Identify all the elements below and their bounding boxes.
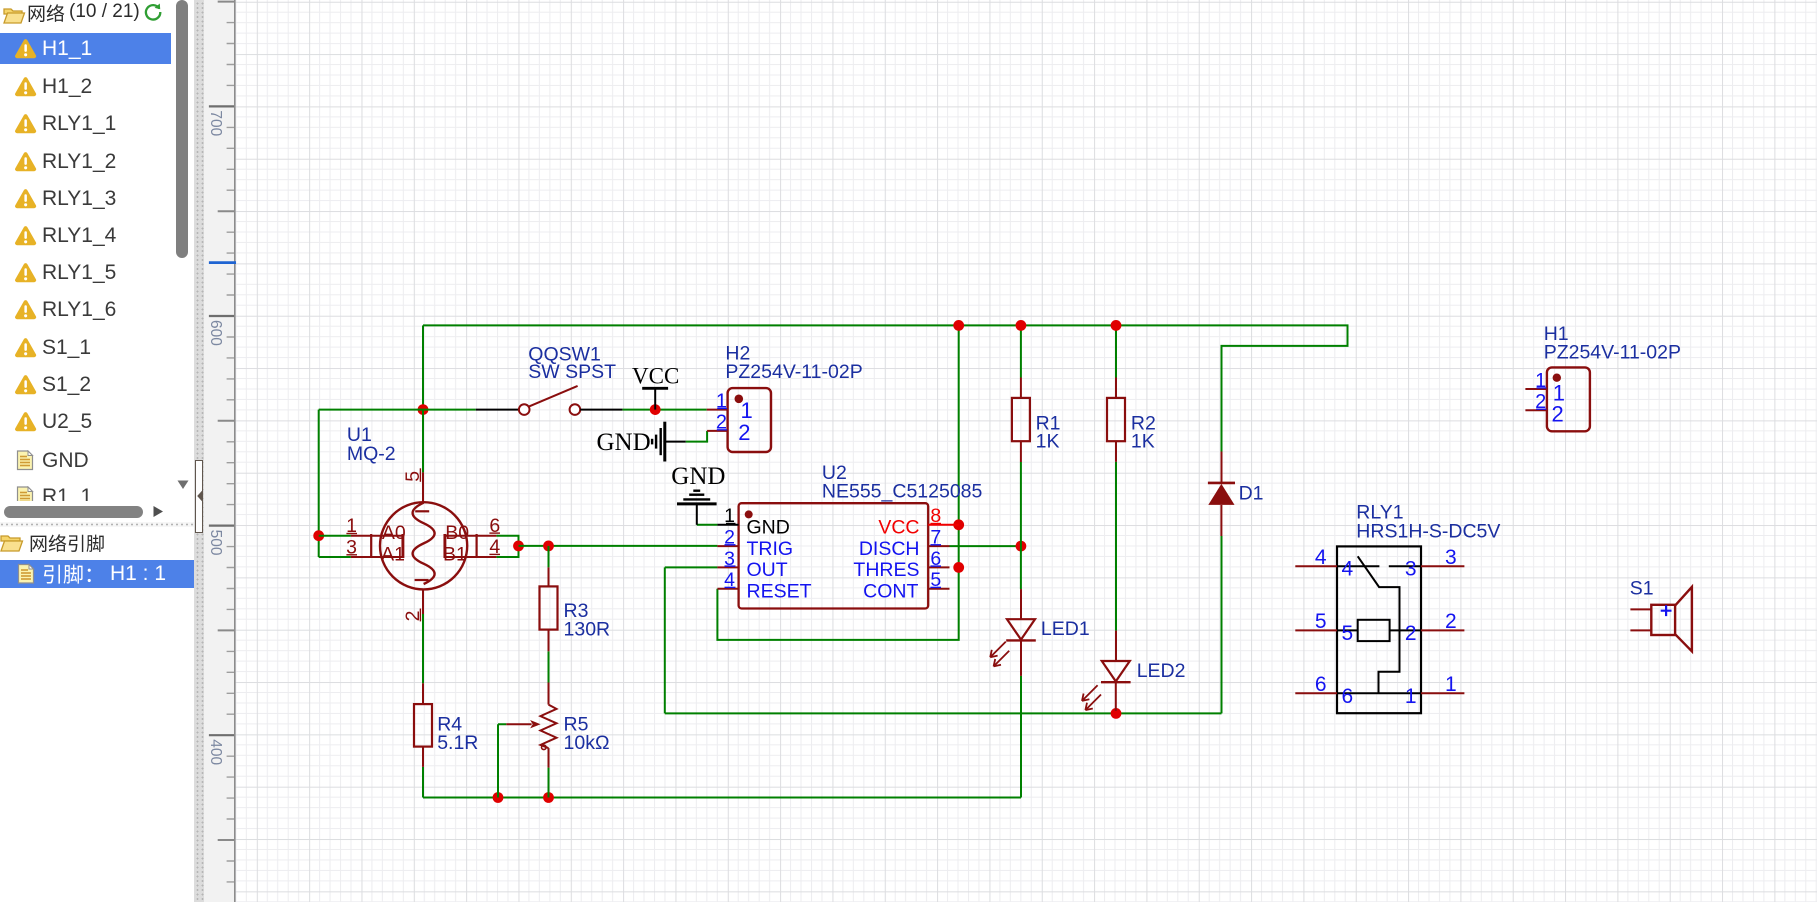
wire switch to junction	[423, 409, 476, 411]
svg-text:2: 2	[1552, 402, 1564, 427]
wire U1 pin2 to R4	[422, 614, 424, 683]
H1 pin 2	[1525, 409, 1547, 411]
power flag VCC	[654, 388, 656, 409]
U2 pin 7 DISCH	[928, 545, 949, 547]
wire D1 bottom to LED2 row	[1221, 536, 1223, 713]
svg-text:1: 1	[1445, 673, 1457, 696]
H1 pin1 mark	[1553, 374, 1561, 382]
S1 pin 2	[1630, 629, 1651, 631]
svg-text:4: 4	[1315, 546, 1327, 569]
RLY1 pin 6	[1295, 692, 1337, 694]
RLY1 pin 3	[1421, 565, 1464, 567]
RLY1 coil	[1358, 620, 1390, 641]
svg-text:DISCH: DISCH	[859, 538, 920, 560]
svg-text:A1: A1	[381, 544, 405, 566]
svg-text:6: 6	[1315, 673, 1327, 696]
S1 horn	[1675, 587, 1692, 651]
svg-text:6: 6	[1342, 685, 1354, 708]
RLY1 fixed contact	[1389, 565, 1421, 567]
resistor R3	[548, 567, 550, 586]
wire R4 to bottom bus	[422, 767, 424, 798]
ground flag GND at U2 pin1	[696, 504, 698, 525]
svg-text:A0: A0	[382, 522, 406, 544]
wire LED1 to bottom bus	[1020, 676, 1022, 798]
left network panel	[0, 0, 194, 902]
wire R2 chain	[1115, 325, 1117, 630]
svg-text:2: 2	[1445, 610, 1457, 633]
U1 pin 5	[422, 472, 424, 502]
wire GND flag to H2 pin2	[686, 431, 707, 442]
svg-text:S1: S1	[1630, 578, 1654, 600]
panel resize gutter	[194, 0, 204, 902]
wire left column down to U1 pins	[318, 410, 320, 557]
wire GND2 flag to U2 pin1	[697, 524, 718, 526]
node junction DISCH / R1	[1016, 541, 1027, 552]
potentiometer R5	[548, 683, 550, 705]
svg-text:GND: GND	[671, 463, 725, 490]
wire R1 chain	[1020, 325, 1022, 589]
node junction bus / R1	[1016, 320, 1027, 331]
H2 pin1 mark	[735, 395, 744, 404]
wire switch right to H2 pin1	[622, 409, 706, 411]
svg-text:500: 500	[207, 530, 224, 556]
svg-text:5.1R: 5.1R	[437, 732, 478, 754]
RLY1 bottom link	[1337, 692, 1421, 694]
wire R5 wiper to bus	[498, 724, 506, 797]
H1 pin 1	[1525, 388, 1547, 390]
LED LED2	[1115, 631, 1117, 661]
RLY1 pin 4	[1295, 565, 1337, 567]
U2 pin1 mark	[745, 510, 753, 518]
U1 right electrode plates	[443, 534, 446, 558]
svg-text:2: 2	[1405, 622, 1417, 645]
node junction R5 bottom at bus	[543, 792, 554, 803]
U1 heater bottom tick	[415, 579, 429, 581]
svg-text:1: 1	[1405, 685, 1417, 708]
svg-text:GND: GND	[747, 517, 790, 539]
svg-text:SW SPST: SW SPST	[528, 361, 616, 383]
U1 pin 6	[445, 535, 497, 537]
U2 pin 8 VCC	[928, 524, 959, 526]
svg-text:NE555_C5125085: NE555_C5125085	[822, 481, 983, 503]
node junction at U1 pin1	[313, 530, 324, 541]
svg-text:2: 2	[738, 420, 750, 445]
svg-text:5: 5	[1315, 610, 1327, 633]
node junction U2 pin6 THRES	[953, 562, 964, 573]
node junction U2 pin8	[953, 519, 964, 530]
wire switch row to left column	[319, 409, 423, 411]
wire R5 bottom to bus	[548, 768, 550, 798]
wire to U1 pin3	[319, 556, 351, 558]
node junction VCC flag	[650, 404, 661, 415]
wire to U1 pin1	[319, 535, 351, 537]
wire U2 RESET loop	[717, 567, 958, 640]
wire U2 OUT loop to LED2 bottom	[665, 567, 1222, 713]
resistor R4	[422, 683, 424, 704]
svg-text:RESET: RESET	[747, 581, 812, 603]
U2 pin 5 CONT	[928, 588, 949, 590]
U2 pin 2 TRIG	[717, 545, 738, 547]
svg-text:5: 5	[1342, 622, 1354, 645]
splitter collapse handle	[195, 460, 204, 533]
svg-text:400: 400	[207, 739, 224, 765]
node junction R5 wiper at bus	[493, 792, 504, 803]
svg-text:CONT: CONT	[863, 581, 918, 603]
svg-text:THRES: THRES	[853, 559, 919, 581]
resistor R2	[1115, 378, 1117, 398]
svg-text:3: 3	[1405, 558, 1417, 581]
H2 pin 2	[707, 430, 728, 432]
wire VCC vertical column	[958, 325, 960, 567]
U1 pin 2	[422, 590, 424, 614]
svg-text:VCC: VCC	[878, 517, 919, 539]
svg-text:TRIG: TRIG	[747, 538, 794, 560]
svg-text:LED2: LED2	[1137, 660, 1186, 682]
svg-text:130R: 130R	[564, 618, 611, 640]
node junction bus / R2	[1111, 320, 1122, 331]
wire bus drop to switch row	[422, 325, 424, 409]
U1 pin 1	[351, 535, 403, 537]
svg-text:PZ254V-11-02P: PZ254V-11-02P	[1544, 341, 1681, 363]
U2 pin 1 GND	[717, 524, 738, 526]
svg-text:OUT: OUT	[747, 559, 788, 581]
svg-text:LED1: LED1	[1041, 618, 1090, 640]
U2 pin 6 THRES	[928, 566, 949, 568]
RLY1 pin 2	[1421, 629, 1464, 631]
svg-text:1K: 1K	[1131, 431, 1155, 453]
wire top VCC bus	[423, 325, 1348, 451]
svg-text:VCC: VCC	[632, 364, 679, 389]
RLY1 pin 5	[1295, 629, 1337, 631]
wire U2 DISCH to R1	[950, 545, 1021, 547]
wire bottom GND bus	[423, 797, 1021, 799]
gas sensor U1 MQ-2	[380, 502, 467, 589]
RLY1 pin 1	[1421, 692, 1464, 694]
node junction LED2 bottom	[1111, 708, 1122, 719]
svg-text:3: 3	[1445, 546, 1457, 569]
H2 pin 1	[707, 409, 728, 411]
U1 left electrode plates	[370, 534, 372, 558]
S1 pin 1	[1630, 608, 1651, 610]
LED LED1	[1020, 589, 1022, 619]
resistor R1	[1020, 378, 1022, 398]
U1 heater top tick	[415, 510, 429, 512]
wire U1 pins 6,4 merge	[496, 536, 518, 557]
S1 polarity +	[1661, 605, 1672, 616]
U1 heater wave	[413, 503, 435, 584]
RLY1 contact arm	[1337, 565, 1379, 567]
ground flag GND at H2	[665, 441, 686, 443]
U1 pin 3	[351, 556, 403, 558]
wire R3 to R5	[548, 651, 550, 682]
U1 pin 4	[445, 556, 497, 558]
U2 pin 3 OUT	[717, 566, 738, 568]
svg-text:HRS1H-S-DC5V: HRS1H-S-DC5V	[1356, 521, 1500, 543]
svg-text:PZ254V-11-02P: PZ254V-11-02P	[725, 361, 862, 383]
diode D1	[1221, 452, 1223, 483]
svg-text:4: 4	[1342, 558, 1354, 581]
svg-text:D1: D1	[1239, 482, 1264, 504]
wire U1 to U2 TRIG	[519, 545, 718, 547]
wire U1 pin5 from junction	[422, 410, 424, 473]
svg-text:1K: 1K	[1036, 431, 1060, 453]
svg-text:10kΩ: 10kΩ	[564, 732, 610, 754]
node junction U1 right pins	[513, 541, 524, 552]
svg-text:B0: B0	[445, 522, 469, 544]
QQSW1 lever	[529, 386, 578, 407]
U2 pin 4 RESET	[717, 588, 738, 590]
switch QQSW1 SW SPST	[476, 409, 519, 411]
node junction R3 top	[543, 541, 554, 552]
svg-text:600: 600	[207, 320, 224, 346]
svg-text:700: 700	[207, 110, 224, 136]
node junction bus / VCC column	[953, 320, 964, 331]
node junction at switch row	[418, 404, 429, 415]
svg-text:B1: B1	[443, 544, 467, 566]
svg-text:MQ-2: MQ-2	[347, 443, 396, 465]
wire R3 top lead	[548, 546, 550, 568]
svg-text:GND: GND	[597, 429, 651, 456]
